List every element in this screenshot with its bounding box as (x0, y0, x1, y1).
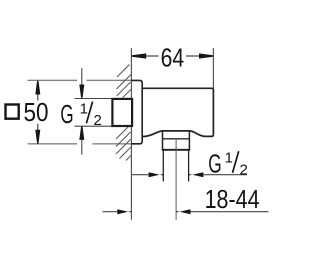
dimension 50: vertical line stubs (37, 94, 39, 130)
inlet thread body (through-wall G1/2 connection) (112, 99, 132, 126)
dimension 18-44: right arrowhead (177, 209, 191, 214)
outlet centre line (175, 139, 177, 220)
inlet G1/2 dim: top arrow tail (81, 68, 83, 85)
dimension 18-44: left arrow tail (103, 211, 118, 213)
outlet G1/2 dim: left arrow tail (132, 174, 149, 176)
svg-text:1: 1 (80, 101, 88, 118)
outlet pipe left edge (162, 150, 164, 182)
escutcheon bottom extension line (50 dim) (28, 143, 132, 145)
dimension 50: top arrowhead (35, 81, 40, 95)
escutcheon (wall rosette) (131, 80, 142, 143)
svg-text:G: G (60, 101, 73, 129)
nut chamfer line (163, 138, 190, 140)
nut right edge (188, 131, 190, 150)
dimension 18-44: right arrow tail (191, 211, 269, 213)
svg-text:64: 64 (161, 44, 185, 72)
dimension 64: right extension line (212, 48, 214, 88)
wall section line (130, 48, 132, 220)
outlet pipe right edge (188, 150, 190, 182)
inlet G1/2 dim: bottom arrow tail (81, 140, 83, 155)
elbow body outline (142, 88, 213, 136)
svg-text:G: G (208, 151, 221, 179)
inlet thread label fraction slash (86, 102, 92, 124)
outlet thread label fraction slash (233, 151, 239, 173)
inlet thread extension line top (75, 98, 113, 100)
svg-text:1: 1 (225, 149, 233, 166)
inlet G1/2 dim: bottom arrowhead (79, 126, 84, 139)
inlet G1/2 dim: top arrowhead (79, 85, 84, 98)
svg-text:2: 2 (94, 112, 102, 129)
dimension 50: bottom arrowhead (35, 130, 40, 144)
wall hatching below inlet thread (116, 126, 131, 161)
wall hatching above inlet thread (117, 65, 132, 98)
inlet thread extension line bottom (75, 125, 113, 127)
outlet G1/2 dim: right arrowhead (189, 172, 203, 177)
svg-text:2: 2 (240, 162, 248, 179)
outlet G1/2 dim: left arrowhead (149, 172, 163, 177)
nut left edge (162, 131, 164, 150)
nut bottom edge (162, 149, 190, 151)
dimension 64: left arrowhead (132, 53, 146, 58)
escutcheon top extension line (50 dim) (28, 79, 132, 81)
outlet G1/2 dim: right arrow tail (203, 174, 247, 176)
square symbol (6, 105, 19, 119)
dimension 18-44: left arrowhead (117, 209, 131, 214)
dimension 64: dimension line segments (146, 55, 199, 57)
svg-text:50: 50 (24, 99, 49, 127)
dimension 64: right arrowhead (199, 53, 213, 58)
svg-text:18-44: 18-44 (205, 186, 260, 214)
